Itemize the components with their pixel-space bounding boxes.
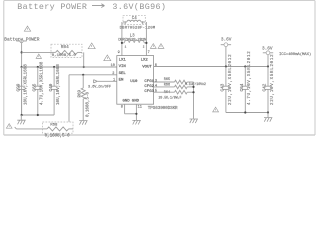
junction C43 top bbox=[225, 65, 227, 67]
svg-text:U10: U10 bbox=[130, 80, 138, 84]
svg-text:C99: C99 bbox=[16, 83, 21, 91]
battery power flag bbox=[16, 40, 20, 42]
wire LX2 net bbox=[145, 22, 147, 56]
svg-text:0,1608,5-0: 0,1608,5-0 bbox=[45, 133, 70, 138]
svg-text:LX2: LX2 bbox=[141, 58, 149, 62]
svg-text:2: 2 bbox=[112, 72, 114, 76]
ground R69 bbox=[79, 121, 81, 125]
svg-text:GND: GND bbox=[132, 99, 140, 103]
capacitor C43 bbox=[225, 67, 227, 87]
ground IC bbox=[132, 120, 134, 124]
ground CFG bbox=[190, 119, 192, 123]
inductor L3 coil bbox=[124, 40, 144, 42]
resistor R66 bbox=[154, 86, 175, 88]
svg-text:Battery POWER: Battery POWER bbox=[17, 2, 87, 12]
resistor R65 bbox=[154, 81, 175, 83]
warning triangle output bbox=[213, 107, 219, 112]
junction LX1 bbox=[121, 42, 123, 44]
svg-text:7: 7 bbox=[148, 51, 150, 55]
power flag 3.6V inner bbox=[221, 44, 224, 46]
svg-text:VIN: VIN bbox=[119, 65, 127, 69]
svg-text:9: 9 bbox=[118, 51, 120, 55]
svg-text:10: 10 bbox=[111, 64, 115, 68]
svg-text:4: 4 bbox=[155, 84, 157, 88]
junction C40 top bbox=[53, 66, 55, 68]
junction out bus C42 bbox=[267, 111, 269, 113]
resistor R68 dashed box bbox=[43, 122, 74, 133]
svg-text:1: 1 bbox=[125, 45, 127, 48]
junction out bus C64 bbox=[244, 111, 246, 113]
warning triangle right of R84 bbox=[88, 43, 95, 49]
svg-text:R84: R84 bbox=[61, 45, 69, 50]
wire 3.6V outer down bbox=[267, 55, 269, 67]
svg-text:3: 3 bbox=[155, 79, 157, 83]
wire IC GND stub 8 bbox=[124, 104, 126, 114]
warning triangle left of R84 bbox=[36, 54, 41, 58]
svg-text:CFG1: CFG1 bbox=[144, 80, 154, 84]
wire CFG tie vertical bbox=[193, 82, 195, 119]
wire LX1 net bbox=[121, 22, 123, 56]
svg-text:R69: R69 bbox=[78, 89, 82, 97]
wire 3.6V inner down bbox=[225, 46, 227, 66]
capacitor C99 bbox=[21, 67, 23, 86]
svg-text:CFG2: CFG2 bbox=[144, 85, 154, 89]
power flag 3.6V outer bbox=[263, 52, 266, 54]
warning triangle bottom left bbox=[6, 124, 12, 129]
svg-text:SEL: SEL bbox=[119, 72, 127, 76]
svg-text:EN: EN bbox=[119, 79, 124, 83]
svg-text:C42: C42 bbox=[263, 83, 268, 91]
svg-text:5: 5 bbox=[155, 89, 157, 93]
capacitor C40 bbox=[53, 67, 55, 86]
svg-text:R65: R65 bbox=[164, 78, 170, 82]
warning triangle LX a bbox=[150, 44, 156, 49]
wire R84 output down to VIN bus bbox=[83, 52, 85, 67]
capacitor C42 bbox=[267, 67, 269, 87]
wire rail to R84 bbox=[22, 51, 51, 53]
wire VOUT rail bbox=[154, 66, 268, 68]
wire battery vertical main bbox=[21, 43, 23, 115]
svg-text:3.6V: 3.6V bbox=[221, 37, 232, 42]
svg-text:GND: GND bbox=[123, 99, 131, 103]
wire SEL net bbox=[69, 74, 117, 76]
junction battery-vin bus bbox=[21, 66, 23, 68]
junction LX2 bbox=[145, 42, 147, 44]
junction SEL-R69 bbox=[82, 74, 84, 76]
svg-text:LX1: LX1 bbox=[119, 58, 127, 62]
svg-text:11: 11 bbox=[138, 105, 142, 109]
svg-text:3.6V_On/OFF: 3.6V_On/OFF bbox=[88, 85, 111, 90]
svg-text:22U,10V,X5RL2012: 22U,10V,X5RL2012 bbox=[271, 54, 275, 105]
ground output bbox=[267, 113, 269, 118]
capacitor C64 bbox=[244, 67, 246, 87]
svg-text:C40: C40 bbox=[49, 83, 54, 91]
svg-text:20.5K,1/8W,F: 20.5K,1/8W,F bbox=[159, 96, 182, 100]
wire output ground bus bbox=[226, 112, 268, 114]
svg-text:DBR70528F-120M: DBR70528F-120M bbox=[120, 26, 156, 30]
wire R68 left bbox=[15, 127, 43, 129]
wire VIN bus bbox=[22, 66, 117, 68]
wire EN net bbox=[97, 80, 117, 82]
wire SEL vertical drop bbox=[68, 75, 70, 122]
junction gnd bus 1 bbox=[21, 114, 23, 116]
warning triangle below R84 right bbox=[104, 55, 111, 61]
IC U10 box bbox=[117, 56, 154, 105]
junction gnd bus 2 bbox=[37, 114, 39, 116]
svg-text:C43: C43 bbox=[221, 83, 226, 91]
junction battery-rail bbox=[21, 51, 23, 53]
resistor R84 dashed box bbox=[51, 44, 82, 57]
svg-text:0.1uF/10Vx2: 0.1uF/10Vx2 bbox=[185, 82, 206, 87]
svg-text:10U,16V,X5RL1608: 10U,16V,X5RL1608 bbox=[25, 64, 29, 105]
svg-text:TPS63900DSKR: TPS63900DSKR bbox=[148, 106, 178, 111]
svg-text:2: 2 bbox=[143, 45, 145, 48]
ground left cap bank bbox=[20, 115, 22, 120]
resistor R69 pulldown bbox=[82, 75, 84, 88]
inductor C4 dashed box bbox=[123, 15, 145, 24]
svg-text:3.6V(BG96): 3.6V(BG96) bbox=[112, 2, 166, 12]
svg-text:22U,10V,X5RL2012: 22U,10V,X5RL2012 bbox=[229, 54, 233, 105]
capacitor C65 bbox=[37, 67, 39, 86]
junction C64 top bbox=[244, 65, 246, 67]
EN input flag bbox=[94, 80, 98, 83]
resistor R64 bbox=[154, 91, 175, 93]
svg-text:4.7U,10V,X5RL2012: 4.7U,10V,X5RL2012 bbox=[248, 50, 252, 105]
wire left ground bus bbox=[22, 114, 55, 116]
svg-text:0,1608,5-0: 0,1608,5-0 bbox=[52, 54, 77, 58]
resistor R68 zigzag bbox=[43, 128, 48, 130]
warning triangle near battery flag bbox=[24, 26, 30, 31]
svg-text:1: 1 bbox=[113, 79, 115, 83]
junction CFG2 tie bbox=[192, 86, 194, 88]
svg-text:R68: R68 bbox=[50, 124, 58, 128]
wire IC GND stub 11 bbox=[135, 104, 137, 120]
resistor R84 zigzag bbox=[51, 51, 56, 53]
junction IC GND bbox=[135, 113, 137, 115]
junction R84-VIN bus bbox=[83, 66, 85, 68]
svg-text:6: 6 bbox=[155, 64, 157, 68]
inductor C4 coil bbox=[127, 20, 141, 22]
svg-text:C65: C65 bbox=[33, 83, 38, 91]
svg-text:0,1608,5-0: 0,1608,5-0 bbox=[86, 91, 90, 117]
svg-text:VOUT: VOUT bbox=[142, 66, 152, 70]
warning triangle LX b bbox=[158, 44, 164, 49]
junction CFG3 tie bbox=[192, 91, 194, 93]
svg-text:8: 8 bbox=[121, 105, 123, 109]
svg-text:10U,10V,X5RL1608: 10U,10V,X5RL1608 bbox=[57, 64, 61, 105]
sheet border frame bbox=[4, 0, 315, 2]
svg-text:4.7U,10V,X5RL1608: 4.7U,10V,X5RL1608 bbox=[41, 61, 45, 105]
junction C65 top bbox=[37, 66, 39, 68]
svg-text:C64: C64 bbox=[240, 83, 245, 91]
svg-text:CFG3: CFG3 bbox=[144, 90, 154, 94]
svg-text:ICC=400mA(MAX): ICC=400mA(MAX) bbox=[279, 52, 311, 57]
junction C42 top bbox=[267, 65, 269, 67]
